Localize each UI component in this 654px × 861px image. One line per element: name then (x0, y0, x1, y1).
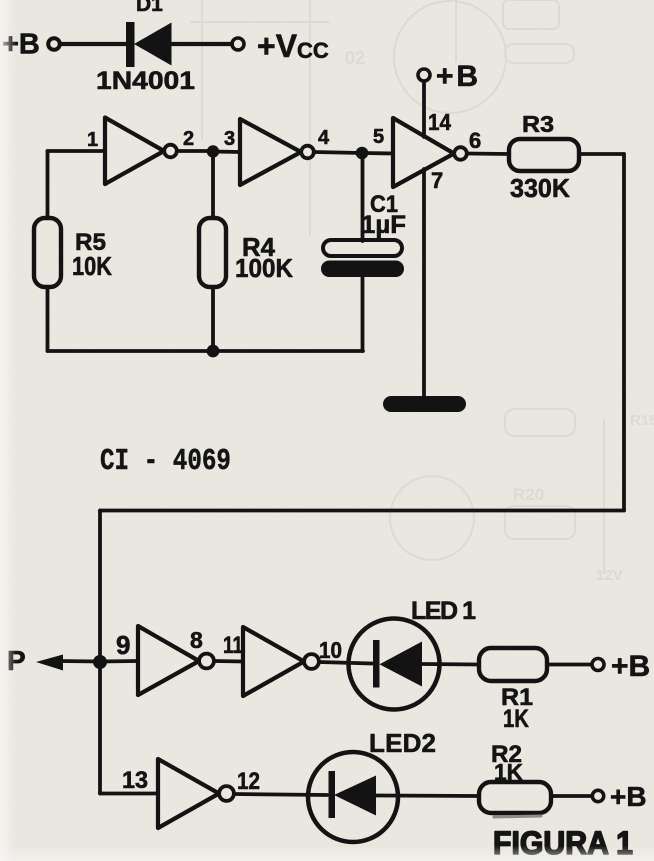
bubble U1A output (164, 145, 177, 158)
wire (61, 42, 127, 46)
wire R1 to +B (547, 663, 592, 667)
bubble U1D output (199, 654, 214, 669)
inverter U1C (393, 118, 454, 187)
node pin2/3/R4 (207, 145, 219, 157)
resistor R1 (479, 648, 547, 681)
wire R4 top (211, 152, 215, 219)
wire R5 bottom (46, 287, 50, 351)
terminal +B top-left (48, 38, 60, 50)
terminal +Vcc (232, 38, 244, 50)
inverter U1A (105, 118, 164, 185)
bubble U1B output (301, 146, 314, 159)
wire into LED1 (319, 662, 372, 664)
wire bottom bus (48, 349, 364, 353)
wire (177, 149, 213, 153)
node R4 bottom (207, 345, 220, 358)
wire R2 to +B (551, 794, 592, 798)
capacitor C1 (321, 240, 404, 277)
resistor R4 (199, 218, 226, 287)
wire R4 bottom (211, 287, 215, 351)
wire to pin 13 (100, 792, 158, 796)
wire right rail down (622, 154, 626, 511)
resistor R2 (479, 782, 551, 813)
diode D1 (126, 22, 172, 67)
wire U1C out to R3 (467, 152, 509, 156)
wire R3 to right rail (579, 152, 624, 156)
terminal +B row2 (592, 790, 603, 801)
smudge mark (494, 816, 541, 817)
bubble U1E output (304, 654, 319, 669)
wire P arrow shaft (58, 659, 100, 663)
resistor R3 (509, 139, 579, 171)
ground (383, 396, 466, 412)
wire input from R5 to pin 1 (48, 149, 106, 153)
arrow to P (36, 655, 63, 671)
wire LED2 to R2 (376, 794, 479, 798)
inverter U1D (138, 626, 199, 695)
wire C1 bottom lead (361, 277, 365, 351)
wire (362, 151, 393, 155)
wire (214, 659, 243, 663)
wire pin 7 to ground (422, 169, 426, 398)
inverter U1B (240, 119, 301, 185)
bubble U1C output (454, 147, 467, 160)
node pin4/5/C1 (356, 147, 369, 160)
wire (213, 150, 240, 154)
wire LED1 to R1 (423, 662, 479, 666)
wire (171, 42, 232, 46)
node P junction (93, 655, 107, 669)
wire node to pin 9 (100, 659, 138, 663)
inverter U1F (158, 759, 219, 828)
wire pin14 supply (422, 82, 426, 138)
terminal +B pin14 (418, 69, 430, 81)
wire (314, 152, 362, 153)
LED LED2 (308, 752, 398, 842)
wire C1 top lead (361, 153, 365, 241)
wire feedback horizontal (100, 509, 624, 513)
wire into LED2 (234, 794, 327, 795)
resistor R5 (34, 218, 61, 287)
wire left rail down (98, 511, 102, 794)
bubble U1F output (219, 786, 234, 801)
LED LED1 (349, 619, 440, 710)
terminal +B row1 (592, 659, 604, 671)
wire R5 top (46, 151, 50, 218)
inverter U1E (243, 627, 304, 696)
